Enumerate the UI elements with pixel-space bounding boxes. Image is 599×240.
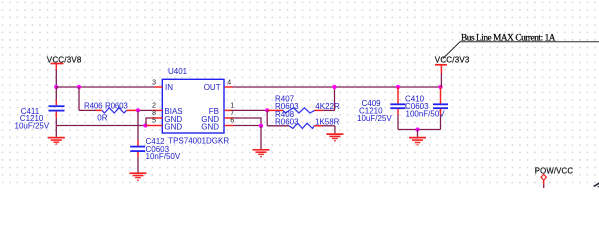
capacitor C409	[357, 87, 406, 130]
pin 8	[151, 110, 162, 118]
wire pin7 to gnd	[234, 118, 261, 126]
pin 3	[152, 79, 162, 87]
svg-text:R406: R406	[84, 101, 103, 110]
svg-text:1: 1	[230, 103, 234, 110]
power VCC/3V8	[47, 56, 82, 88]
svg-text:4K22R: 4K22R	[315, 102, 340, 111]
node bottom rail junction	[415, 127, 419, 131]
node C409 top junction	[396, 85, 400, 89]
wire input rail	[56, 86, 154, 88]
node R407 top junction	[332, 85, 336, 89]
svg-text:TPS74001DGKR: TPS74001DGKR	[168, 137, 229, 146]
svg-text:U401: U401	[168, 67, 188, 76]
capacitor C412	[130, 110, 181, 172]
wire gnd drop	[260, 126, 262, 149]
resistor R406	[79, 87, 152, 123]
pin 1	[225, 103, 235, 111]
node VCC3V8 junction	[54, 85, 58, 89]
wire ground rail left	[56, 125, 146, 127]
node C412 branch junction	[136, 108, 140, 112]
svg-text:5: 5	[152, 118, 156, 125]
svg-text:4: 4	[227, 79, 231, 86]
wire gnd stem	[417, 130, 419, 138]
pin 4	[225, 79, 233, 87]
svg-text:0R: 0R	[97, 114, 107, 123]
pin 6	[225, 118, 235, 126]
svg-text:10nF/50V: 10nF/50V	[146, 152, 181, 161]
pin 2	[152, 103, 162, 111]
node FB junction	[265, 108, 269, 112]
resistor R407	[267, 87, 340, 113]
svg-text:3: 3	[152, 79, 156, 86]
svg-text:POW/VCC: POW/VCC	[535, 166, 574, 175]
pin 5	[146, 118, 162, 126]
wire FB net	[233, 109, 268, 111]
svg-text:100nF/50V: 100nF/50V	[406, 109, 446, 118]
ground at C412	[130, 173, 147, 180]
svg-text:6: 6	[230, 118, 234, 125]
ground at C409 C410	[409, 138, 426, 145]
svg-text:10uF/25V: 10uF/25V	[15, 122, 50, 131]
svg-text:GND: GND	[164, 123, 182, 132]
svg-text:IN: IN	[165, 83, 173, 92]
svg-text:GND: GND	[201, 123, 219, 132]
svg-text:2: 2	[152, 103, 156, 110]
port POW/VCC	[535, 166, 574, 188]
svg-text:10uF/25V: 10uF/25V	[357, 114, 392, 123]
svg-text:7: 7	[230, 110, 234, 117]
node pin8 branch junction	[143, 123, 147, 127]
wire cap bottom rail	[398, 129, 441, 131]
power VCC/3V3	[435, 56, 470, 88]
resistor R408	[267, 110, 339, 133]
svg-text:8: 8	[152, 110, 156, 117]
op-amp U1 regulator U401 box	[162, 67, 229, 146]
pin 7	[225, 110, 235, 118]
capacitor C411	[15, 87, 65, 131]
corner mark	[593, 182, 599, 187]
capacitor C410	[405, 87, 448, 130]
annotation Bus Line MAX Current	[443, 34, 599, 59]
ground at R408	[326, 134, 343, 141]
node pin6 junction	[259, 124, 263, 128]
svg-text:VCC/3V3: VCC/3V3	[435, 56, 470, 65]
wire pin8 branch	[146, 118, 151, 126]
node R406 branch junction	[77, 85, 81, 89]
ground at pins 6 7	[253, 150, 270, 157]
ground at C411	[48, 126, 65, 145]
wire output rail	[233, 86, 441, 88]
node C410 top junction	[438, 85, 442, 89]
svg-text:OUT: OUT	[204, 83, 221, 92]
wire pin6 to gnd	[234, 125, 262, 127]
